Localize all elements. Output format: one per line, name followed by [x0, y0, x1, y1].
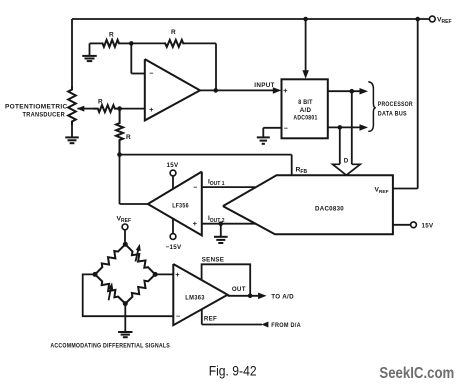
svg-text:Fig. 9-42: Fig. 9-42 — [209, 363, 257, 378]
supply -15V — [166, 219, 182, 251]
svg-text:−: − — [193, 185, 197, 192]
svg-text:VREF: VREF — [117, 215, 132, 224]
svg-text:POTENTIOMETRIC: POTENTIOMETRIC — [5, 103, 68, 110]
label OUT — [232, 286, 246, 293]
ADC ADC0801 U2 — [282, 79, 328, 138]
svg-text:IOUT 1: IOUT 1 — [208, 179, 225, 188]
bridge resistor bottom-right — [125, 274, 155, 303]
svg-text:SeekIC.com: SeekIC.com — [379, 365, 454, 382]
node fb2 junction — [117, 152, 122, 157]
wire A1 output to ADC — [200, 87, 281, 94]
ground top-left — [82, 43, 97, 61]
wire to op-amp + — [120, 108, 145, 110]
svg-text:R: R — [126, 134, 131, 141]
supply 15V — [167, 162, 179, 189]
svg-text:+: + — [149, 105, 154, 114]
svg-text:R: R — [109, 32, 114, 39]
wire IOUT1 — [202, 186, 256, 188]
wire bridge left bypass — [83, 274, 174, 316]
label RFB — [296, 167, 308, 176]
svg-text:PROCESSOR: PROCESSOR — [378, 101, 413, 108]
label SENSE — [202, 256, 224, 263]
op-amp LM363 — [173, 264, 227, 325]
node A1 output — [213, 88, 218, 93]
DAC DAC0830 — [223, 175, 393, 234]
resistor R feedback — [131, 29, 216, 47]
node bridge left — [93, 272, 98, 277]
arrow var bottom-left — [108, 282, 113, 300]
svg-text:A/D: A/D — [300, 107, 312, 114]
op-amp A1 — [145, 59, 200, 120]
svg-text:8 BIT: 8 BIT — [298, 99, 313, 106]
svg-text:DAC0830: DAC0830 — [315, 207, 344, 213]
node bridge right — [153, 272, 158, 277]
svg-text:15V: 15V — [422, 222, 434, 229]
arrow var top-right — [136, 244, 141, 262]
svg-text:RFB: RFB — [296, 167, 308, 176]
node IOUT2 gnd junction — [219, 221, 224, 226]
wire RFB — [120, 155, 292, 176]
svg-text:INPUT: INPUT — [254, 82, 274, 89]
wire rail to ADC VCC — [302, 19, 309, 79]
node fb junction — [129, 41, 134, 46]
bridge resistor top-left — [95, 244, 125, 274]
svg-text:ACCOMMODATING DIFFERENTIAL SIG: ACCOMMODATING DIFFERENTIAL SIGNALS — [50, 342, 170, 349]
wire OUT — [228, 295, 261, 297]
wire ADC D0 — [328, 124, 368, 131]
node rail-ADC junction — [303, 17, 308, 22]
arrow TO A/D — [258, 293, 294, 301]
bus D to DAC — [333, 91, 361, 175]
resistor R lower — [116, 109, 131, 155]
svg-text:R: R — [171, 29, 176, 36]
svg-text:ADC0801: ADC0801 — [293, 114, 317, 121]
node D7 junction — [350, 89, 355, 94]
node plus-input junction — [117, 106, 122, 111]
svg-text:LF356: LF356 — [172, 203, 189, 209]
wire SENSE loop — [202, 264, 251, 296]
svg-text:DATA BUS: DATA BUS — [378, 111, 407, 118]
wire pot wiper — [77, 106, 93, 112]
svg-text:15V: 15V — [167, 162, 179, 169]
node 15V terminal — [411, 222, 434, 229]
wire DAC 15V pin — [393, 224, 411, 226]
svg-text:−: − — [284, 126, 288, 133]
svg-text:LM363: LM363 — [185, 296, 205, 302]
node VREF terminal — [429, 16, 451, 25]
node OUT junction — [248, 294, 253, 299]
label ACCOMMODATING DIFFERENTIAL SIGNALS — [50, 342, 170, 349]
label IOUT1 — [208, 179, 225, 188]
label DAC VREF pin — [375, 187, 389, 196]
label IOUT2 — [208, 215, 225, 224]
resistor R gnd — [90, 32, 132, 47]
label PROCESSOR DATA BUS — [378, 101, 413, 117]
node bridge top — [123, 242, 128, 247]
label INPUT — [254, 82, 274, 89]
svg-text:+: + — [175, 270, 180, 279]
wire IOUT2 — [202, 223, 256, 225]
wire right VREF rail — [393, 19, 418, 189]
svg-text:D: D — [344, 157, 349, 164]
potentiometer transducer — [68, 86, 76, 125]
wire bridge right to + — [155, 273, 173, 275]
wire to LF356 out — [120, 155, 148, 204]
svg-text:TRANSDUCER: TRANSDUCER — [23, 111, 66, 118]
brace data bus — [368, 82, 376, 132]
label Fig. 9-42 — [209, 363, 257, 378]
ground IOUT2 — [214, 224, 228, 243]
node rail-right junction — [415, 17, 420, 22]
svg-text:VREF: VREF — [437, 17, 452, 26]
svg-text:+: + — [193, 219, 198, 228]
node D0 junction — [338, 125, 343, 130]
arrow FROM D/A — [261, 322, 301, 330]
wire top VREF rail — [72, 19, 430, 86]
ground ADC — [257, 128, 282, 144]
wire REF — [202, 310, 262, 325]
bridge resistor bottom-left — [95, 274, 125, 303]
svg-text:−15V: −15V — [166, 244, 182, 251]
svg-text:SENSE: SENSE — [202, 256, 224, 263]
wire fb to output — [215, 43, 217, 90]
svg-text:VREF: VREF — [375, 187, 389, 196]
svg-text:−: − — [176, 313, 180, 320]
ground bridge — [118, 304, 132, 338]
label SeekIC.com — [379, 365, 454, 382]
ground pot — [65, 125, 79, 143]
svg-text:REF: REF — [204, 316, 217, 323]
wire ADC D7 — [328, 88, 368, 95]
svg-text:FROM D/A: FROM D/A — [271, 322, 301, 329]
svg-text:−: − — [149, 70, 153, 77]
svg-text:TO A/D: TO A/D — [271, 293, 294, 300]
label REF — [204, 316, 217, 323]
op-amp LF356 — [148, 172, 202, 236]
svg-text:R: R — [98, 99, 103, 106]
svg-text:OUT: OUT — [232, 286, 246, 293]
label POTENTIOMETRIC TRANSDUCER — [5, 103, 68, 118]
bridge resistor top-right — [125, 244, 155, 274]
node VREF bridge terminal — [117, 215, 132, 244]
node bridge bottom — [123, 301, 128, 306]
wire fb node to minus — [131, 43, 145, 73]
resistor R wiper — [93, 99, 120, 113]
svg-text:+: + — [283, 86, 288, 95]
